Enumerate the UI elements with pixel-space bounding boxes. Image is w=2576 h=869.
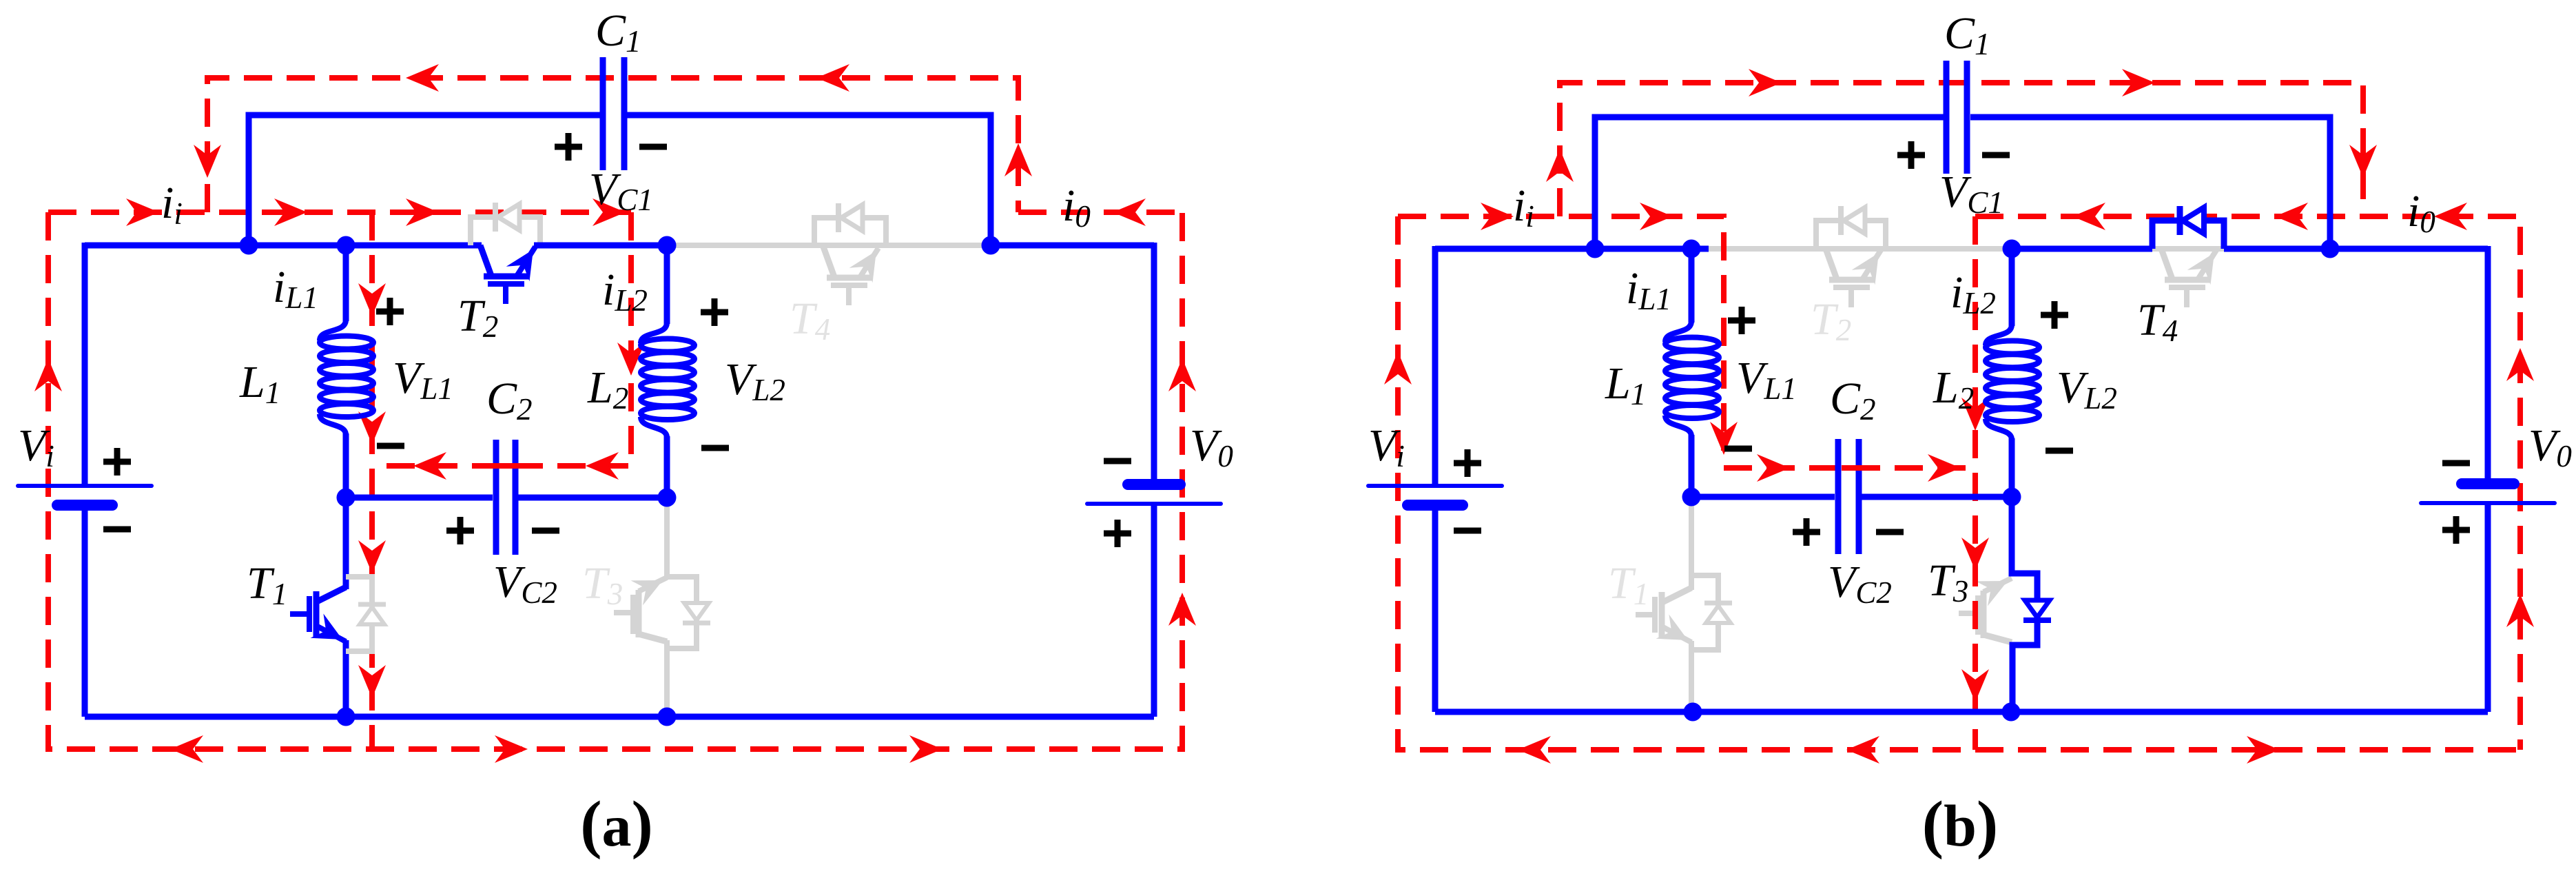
svg-text:T3: T3 (1928, 555, 1968, 609)
arrow right on C1 loop top (b) (2122, 69, 2155, 96)
wire C1 top right (a) (627, 115, 991, 245)
wire C1 top left (a) (249, 115, 600, 245)
svg-text:L1: L1 (1605, 358, 1646, 411)
current path C1 loop (b) (1560, 83, 2363, 216)
wire main row T4 segment (b) (2012, 246, 2152, 252)
arrow left on C2 row (a) (586, 452, 619, 480)
svg-text:iL1: iL1 (273, 262, 318, 315)
current path ii row + iL1 (b) (1398, 216, 1724, 451)
wire gray T1 branch (b) (1689, 497, 1694, 590)
wire main row left (a) (85, 243, 482, 249)
plus of C1 (a) (555, 144, 582, 150)
arrow down end of iL1 path (b) (1710, 422, 1738, 455)
current dash over C2 plates (b) (1842, 465, 1868, 471)
plus of VL2 (b) (2041, 312, 2068, 318)
inductor L2 (a) (641, 323, 694, 438)
svg-text:T1: T1 (1608, 558, 1649, 611)
minus of C1 (b) (1982, 152, 2010, 159)
current path ii row (a) (48, 209, 631, 215)
transistor T1 (b, inactive) (1636, 588, 1691, 642)
transistor T3 IGBT part (b, gray) (1959, 578, 2012, 642)
wire L1 branch (b) (1689, 249, 1695, 323)
arrow up on C1 loop right (a) (1004, 143, 1032, 176)
arrow left on i0 row (b) (2434, 203, 2467, 230)
svg-text:VL1: VL1 (393, 353, 453, 406)
transistor T4 IGBT part (b, gray) (2152, 246, 2224, 252)
arrow left on C1 loop top (a) (816, 64, 849, 92)
wire right column (a) (1151, 243, 1157, 484)
node (2315,361) (b) (1586, 240, 1605, 258)
svg-text:T2: T2 (457, 291, 498, 344)
arrow right on bottom loop (a) (495, 735, 528, 763)
svg-text:i0: i0 (1062, 181, 1091, 234)
svg-text:T4: T4 (790, 294, 830, 347)
transistor T1 (a, active) (290, 587, 346, 642)
svg-text:VL2: VL2 (725, 354, 785, 407)
inductor L2 (b) (1986, 325, 2039, 440)
arrow down on iL1 path (a) (358, 411, 386, 444)
arrow right on ii row (a) (406, 198, 439, 226)
wire left column (a) (82, 243, 88, 486)
plus of C2 (a) (446, 528, 474, 534)
svg-text:C2: C2 (486, 374, 533, 427)
svg-text:VL2: VL2 (2057, 362, 2117, 416)
current path iL1 (a) (369, 212, 375, 749)
svg-text:i0: i0 (2407, 186, 2435, 239)
wire bottom row (b) (1435, 709, 2488, 715)
current dash over C2 plates (a) (492, 463, 519, 469)
outer left + bottom loop (b) (1398, 216, 2520, 750)
svg-text:L1: L1 (239, 357, 280, 410)
minus of C2 (a) (532, 528, 559, 534)
transistor T3 (a, inactive) (667, 577, 697, 648)
wire right column (b) (2485, 246, 2491, 484)
minus of Vi (a) (103, 526, 131, 533)
current path iL2 loop (a) (372, 212, 631, 466)
plus of Vi (b) (1454, 460, 1481, 467)
minus of VL1 (b) (1724, 446, 1752, 452)
svg-text:C1: C1 (1944, 8, 1990, 61)
arrow left on i0 row (b) (2275, 203, 2308, 230)
plus of VL2 (a) (701, 309, 728, 316)
wire gray T2 row (b) (1705, 246, 2012, 252)
transistor T2 (a, active) (480, 245, 535, 304)
svg-text:L2: L2 (587, 362, 628, 416)
arrow right on bottom loop (b) (2247, 736, 2280, 764)
node (2920,361) (b) (2003, 240, 2021, 258)
plus of V0 (b) (2442, 527, 2470, 533)
arrow right on ii row (a) (593, 198, 626, 226)
wire main row right (b) (2330, 246, 2488, 252)
wire T3 branch + diode (b, active blue) (2012, 497, 2037, 598)
arrow left on i0 row (b) (2072, 203, 2105, 230)
wire gray T4 row (a) (667, 243, 991, 248)
svg-text:Vi: Vi (1368, 420, 1405, 473)
node (968,722) (a) (658, 489, 677, 507)
arrow down on iL2 path (a) (617, 343, 645, 376)
node (2455,361) (b) (1682, 240, 1701, 258)
transistor T4 (a, inactive) (814, 218, 886, 247)
inductor L1 (b) (1665, 321, 1719, 436)
plus of V0 (a) (1104, 531, 1131, 537)
arrow left on bottom loop (b) (1846, 736, 1879, 764)
svg-text:ii: ii (1513, 181, 1534, 234)
node (968,1040) (a) (658, 708, 677, 726)
voltage source V0 (a) (1128, 479, 1180, 490)
wire L1 branch (a) (343, 245, 349, 321)
wire left column (b) (1432, 246, 1439, 486)
minus of VL2 (b) (2046, 448, 2073, 454)
node (361,356) (a) (240, 236, 258, 255)
svg-text:VC2: VC2 (493, 557, 557, 610)
svg-text:T1: T1 (247, 558, 287, 611)
minus of C2 (b) (1876, 529, 1904, 535)
capacitor C2 (a) (493, 440, 499, 555)
diode of T4 (b, active blue) (2152, 221, 2224, 249)
svg-text:T4: T4 (2137, 295, 2178, 348)
svg-text:VL1: VL1 (1736, 353, 1797, 406)
svg-text:T2: T2 (1811, 294, 1851, 347)
arrow down on iL1 path (a) (358, 540, 386, 573)
arrow up on right loop (b) (2506, 594, 2534, 627)
arrow right on C2 row (b) (1757, 454, 1790, 482)
voltage source V0 (b) (2462, 478, 2514, 489)
node (2920,721) (b) (2003, 488, 2021, 507)
voltage source Vi (a) (18, 484, 152, 488)
outer current loop (a) (48, 212, 1182, 749)
diode of T1 (a, gray) (346, 577, 372, 651)
arrow left on bottom loop (a) (170, 735, 203, 763)
node (968,356) (a) (658, 236, 677, 255)
node (502,356) (a) (337, 236, 356, 255)
svg-text:V0: V0 (1190, 420, 1233, 473)
node (2457,1033) (b) (1684, 703, 1702, 722)
svg-text:(a): (a) (580, 788, 653, 860)
arrow left on C2 row (a) (413, 452, 446, 480)
inductor L1 (a) (320, 320, 373, 435)
arrow down on iL1 path (a) (358, 283, 386, 316)
capacitor C1 (a) (600, 57, 606, 170)
arrow right on C2 row (b) (1928, 454, 1961, 482)
svg-text:V0: V0 (2528, 420, 2572, 473)
svg-text:iL2: iL2 (602, 265, 648, 318)
minus of Vi (b) (1454, 528, 1481, 534)
arrow up on left loop (a) (34, 358, 62, 391)
node (3382,361) (b) (2321, 240, 2340, 258)
wire C2 row (a) (346, 495, 493, 501)
minus of C1 (a) (639, 144, 667, 150)
svg-text:iL1: iL1 (1626, 263, 1671, 316)
arrow left on C1 loop top (a) (406, 64, 439, 92)
node (502,722) (a) (337, 489, 356, 507)
wire main row mid (a) (534, 243, 667, 249)
svg-text:C2: C2 (1830, 374, 1876, 427)
arrow up on left loop (b) (1384, 351, 1412, 385)
plus of C2 (b) (1793, 529, 1820, 535)
diode of T2 (a, gray) (471, 217, 540, 245)
svg-text:ii: ii (161, 178, 183, 231)
minus of V0 (a) (1104, 458, 1131, 464)
arrow up on right loop (b) (2506, 348, 2534, 381)
arrow left on i0 row (a) (1113, 198, 1146, 226)
minus of VL1 (a) (377, 443, 404, 449)
wire T1 branch (a) (343, 498, 349, 589)
capacitor C2 (b) (1835, 439, 1842, 554)
svg-text:(b): (b) (1922, 788, 1998, 860)
wire main row left (b) (1435, 246, 1709, 252)
node (2455,721) (b) (1682, 488, 1701, 507)
arrow right on bottom loop (a) (909, 735, 942, 763)
arrow down on iL2 path (b) (1961, 669, 1989, 702)
arrow left on bottom loop (b) (1518, 736, 1551, 764)
arrow down on iL2 path (b) (1961, 398, 1989, 431)
wire C2 row (b) (1691, 494, 1835, 500)
arrow right on C1 loop top (b) (1749, 69, 1782, 96)
plus of C1 (b) (1897, 152, 1925, 159)
wire main row right (a) (991, 243, 1154, 249)
wire gray T3 branch (a) (664, 498, 670, 580)
arrow down on C1 loop right (b) (2349, 145, 2377, 178)
voltage source Vi (b) (1368, 484, 1502, 488)
plus of Vi (a) (103, 459, 131, 465)
arrow right on ii row (b) (1481, 203, 1514, 230)
svg-text:T3: T3 (582, 558, 623, 611)
current path i0 row (a) (1018, 209, 1182, 215)
wire C1 top left (b) (1595, 117, 1944, 249)
minus of VL2 (a) (701, 445, 729, 451)
plus of VL1 (a) (376, 309, 404, 315)
transistor T2 (b, inactive) (1816, 221, 1886, 249)
node (502,1040) (a) (337, 708, 356, 726)
wire bottom row (a) (85, 714, 1154, 720)
svg-text:C1: C1 (595, 6, 641, 59)
current path C1 loop (a) (207, 78, 1018, 212)
arrow down on iL2 path (b) (1961, 538, 1989, 571)
wire L2 branch (a) (664, 245, 670, 324)
arrow down on iL1 path (a) (358, 665, 386, 698)
node (1438,356) (a) (982, 236, 1000, 255)
current path C2 row (b) (1724, 465, 1975, 471)
arrow right on ii row (b) (1640, 203, 1673, 230)
arrow up on right loop (a) (1168, 593, 1196, 626)
svg-text:VC1: VC1 (1939, 167, 2003, 220)
node (2919,1033) (b) (2002, 703, 2021, 722)
arrow up on right loop (a) (1168, 358, 1196, 391)
capacitor C1 (b) (1944, 61, 1950, 174)
current path i0 row + right loop (b) (1975, 216, 2520, 750)
svg-text:VC2: VC2 (1828, 557, 1892, 610)
arrow up on C1 loop left (b) (1546, 149, 1574, 182)
current path iL2 (b) (1972, 216, 1978, 750)
arrow down into ii row (a) (194, 145, 221, 178)
svg-text:VC1: VC1 (589, 164, 653, 217)
plus of VL1 (b) (1728, 318, 1755, 324)
wire L2 branch (b) (2009, 249, 2015, 326)
wire C1 top right (b) (1970, 117, 2330, 249)
svg-text:L2: L2 (1933, 362, 1974, 416)
arrow right on ii row (a) (274, 198, 307, 226)
arrow right on ii row (a) (126, 198, 159, 226)
minus of V0 (b) (2442, 460, 2470, 467)
